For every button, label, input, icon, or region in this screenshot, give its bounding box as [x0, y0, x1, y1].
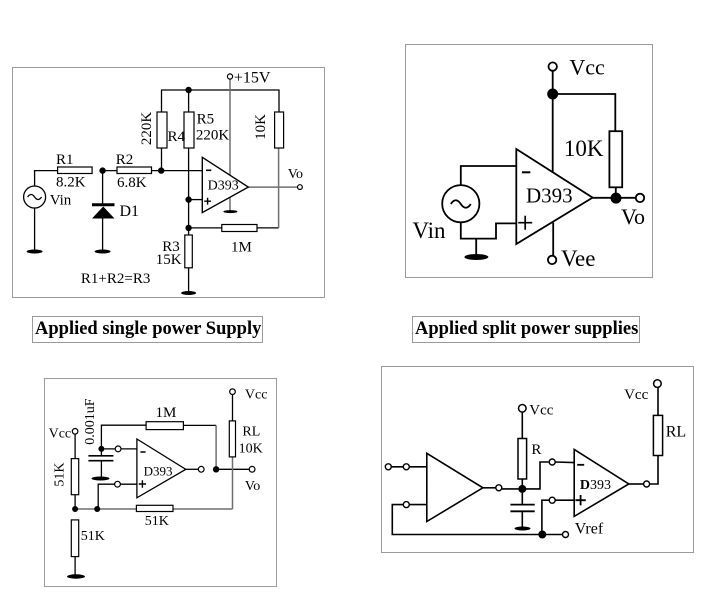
- svg-text:+15V: +15V: [234, 70, 271, 87]
- svg-text:220K: 220K: [196, 128, 230, 144]
- svg-text:10K: 10K: [564, 136, 604, 161]
- svg-text:R4: R4: [168, 129, 186, 145]
- svg-text:Vin: Vin: [412, 218, 446, 243]
- svg-text:Vee: Vee: [561, 246, 595, 271]
- svg-text:Vcc: Vcc: [529, 403, 553, 419]
- svg-text:0.001uF: 0.001uF: [83, 398, 98, 445]
- svg-text:1M: 1M: [156, 405, 177, 421]
- svg-text:10K: 10K: [239, 442, 263, 457]
- svg-text:D1: D1: [120, 203, 140, 220]
- svg-text:15K: 15K: [156, 252, 182, 268]
- svg-text:Vref: Vref: [575, 521, 604, 538]
- svg-text:Vcc: Vcc: [624, 387, 648, 403]
- svg-text:R: R: [531, 442, 541, 458]
- svg-text:Vcc: Vcc: [49, 427, 72, 442]
- svg-text:RL: RL: [242, 424, 260, 439]
- svg-text:Vcc: Vcc: [569, 55, 605, 80]
- svg-text:D393: D393: [208, 179, 239, 194]
- svg-text:Vo: Vo: [621, 204, 645, 229]
- svg-text:R1+R2=R3: R1+R2=R3: [81, 271, 150, 287]
- svg-text:R2: R2: [116, 152, 134, 168]
- svg-text:D393: D393: [580, 478, 611, 493]
- svg-text:6.8K: 6.8K: [117, 175, 147, 191]
- svg-text:Vcc: Vcc: [245, 387, 268, 402]
- svg-text:220K: 220K: [139, 112, 155, 146]
- svg-text:Vin: Vin: [50, 193, 72, 209]
- svg-text:Vo: Vo: [245, 479, 260, 494]
- svg-text:51K: 51K: [145, 514, 169, 529]
- svg-text:D393: D393: [144, 464, 173, 479]
- svg-text:10K: 10K: [253, 114, 269, 140]
- svg-text:D393: D393: [526, 184, 573, 208]
- svg-text:51K: 51K: [53, 462, 68, 486]
- svg-text:R1: R1: [56, 152, 74, 168]
- svg-text:51K: 51K: [81, 529, 105, 544]
- svg-text:1M: 1M: [231, 240, 252, 256]
- svg-text:R5: R5: [197, 112, 215, 128]
- svg-text:Vo: Vo: [288, 167, 303, 182]
- svg-text:8.2K: 8.2K: [56, 175, 86, 191]
- svg-text:RL: RL: [666, 424, 686, 441]
